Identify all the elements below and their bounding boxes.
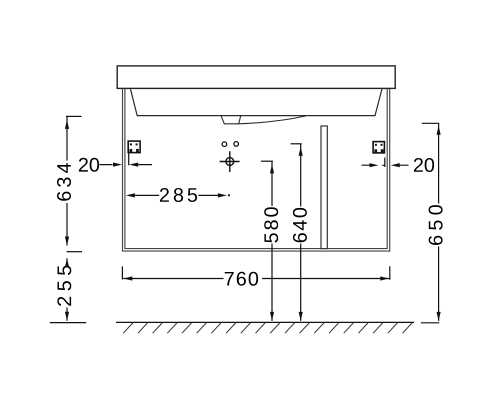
dimension 760 label [225,272,258,286]
dimension 20 left arrowheads [113,163,122,167]
dimension 634/255 shared tick [67,251,83,253]
dimension 650 lines [438,123,440,321]
dimension 255 arrowheads [65,258,69,267]
faucet hole crosshair [220,151,240,172]
ground hatching [123,323,412,333]
dimension 640 stub [291,143,302,145]
dimension 255 label (rotated) [57,266,71,306]
cabinet inner wall [125,89,387,249]
basin drain cup [221,116,241,124]
dimension 20 left lines [100,164,153,166]
dimension 580 stub [261,160,273,162]
dimension 640 label (rotated) [293,208,307,242]
dimension 20 right lines [362,164,409,166]
dimension 285 lines [135,194,218,196]
basin interior outline [131,89,383,116]
dimension 20 right label [414,158,434,172]
dimension 640 arrowheads [299,147,303,156]
dimension 255 ground stub [50,322,86,324]
dimension 650 label (rotated) [429,205,443,245]
dimension 634 stub [66,115,82,117]
dimension 285 end dot [228,194,230,196]
ground line [116,321,414,323]
right bracket extension line [382,158,385,168]
dimension 760 lines [123,278,389,280]
dimension 634 lines [66,116,68,245]
fixing hole right [234,142,239,147]
dimension 255 lines [66,258,68,321]
dimension 285 arrowheads [126,193,135,197]
cabinet outer wall [123,89,390,251]
left bracket [128,141,140,153]
dimension 650 arrowheads [437,126,441,135]
dimension 634 label (rotated) [57,163,71,201]
dimension 580 lines [271,161,273,321]
countertop slab [117,66,395,89]
dimension 20 left label [79,158,99,172]
dimension 580 label (rotated) [264,207,278,242]
dimension 760 arrowheads [123,276,132,280]
dimension 580 arrowheads [270,164,274,173]
dimension 20 right arrowheads [370,163,379,167]
right bracket [373,142,384,153]
dimension 640 lines [300,144,302,321]
left bracket extension line [128,153,130,166]
dimension 634 arrowheads [65,120,69,129]
drawer divider strip [321,126,327,249]
basin floor curve [239,116,306,124]
dimension 285 label [160,188,197,202]
fixing hole left [222,142,227,147]
dimension 760 end ticks [122,266,389,280]
dimension 650 top stub [422,122,439,124]
dimension 650 ground stub [421,322,439,324]
